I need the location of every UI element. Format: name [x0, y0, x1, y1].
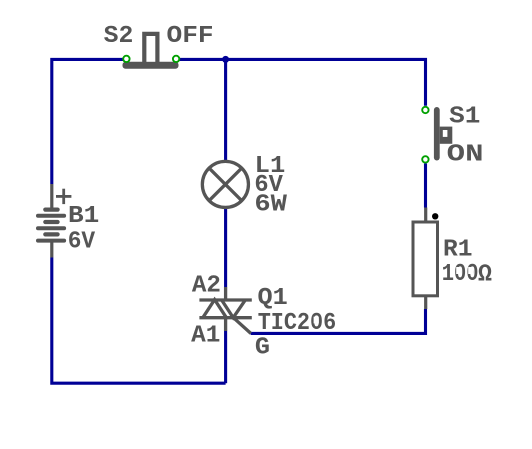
- wire: top rail left segment + left vertical down to battery: [52, 59, 123, 184]
- S2 right terminal: [173, 56, 179, 62]
- svg-text:Q1: Q1: [258, 285, 288, 312]
- wire: from lamp bottom down to triac A2: [224, 209, 227, 288]
- node: black dot at R1 top: [432, 213, 438, 219]
- wire: from triac A1 down to bottom rail: [224, 331, 227, 383]
- svg-text:OFF: OFF: [167, 23, 214, 50]
- S1 bottom terminal: [422, 156, 428, 162]
- battery B1: [38, 184, 64, 258]
- wire: from R1 bottom down and left to triac gate: [251, 309, 426, 333]
- wire: top rail from S2 right terminal to top-right corner, down to S1: [180, 59, 426, 105]
- lamp L1: [202, 161, 248, 207]
- svg-text:6W: 6W: [254, 192, 287, 219]
- zero glyph dot masks: [456, 267, 461, 274]
- wire: from S1 bottom terminal down to R1 top: [424, 164, 427, 208]
- svg-text:6V: 6V: [68, 228, 96, 255]
- triac Q1: [199, 287, 251, 333]
- svg-text:R1: R1: [443, 237, 473, 264]
- node: junction dot on top rail: [222, 56, 229, 63]
- svg-text:A2: A2: [192, 272, 221, 299]
- S2 left terminal: [123, 56, 129, 62]
- svg-text:B1: B1: [68, 203, 99, 230]
- svg-text:A1: A1: [191, 323, 220, 350]
- svg-text:100: 100: [442, 261, 479, 288]
- switch S1: [434, 107, 452, 161]
- wire: lamp branch from junction down to lamp L1: [224, 59, 227, 160]
- svg-text:TIC206: TIC206: [258, 310, 337, 337]
- svg-text:S2: S2: [104, 23, 134, 50]
- svg-text:G: G: [255, 334, 270, 361]
- resistor R1: [413, 208, 438, 310]
- wire: bottom rail and left vertical up to battery minus: [52, 258, 226, 384]
- S1 top terminal: [422, 107, 428, 113]
- switch S2: [123, 32, 179, 69]
- svg-text:Ω: Ω: [478, 262, 492, 289]
- svg-text:S1: S1: [449, 103, 480, 130]
- svg-text:ON: ON: [447, 141, 484, 168]
- battery plus sign: [56, 189, 71, 204]
